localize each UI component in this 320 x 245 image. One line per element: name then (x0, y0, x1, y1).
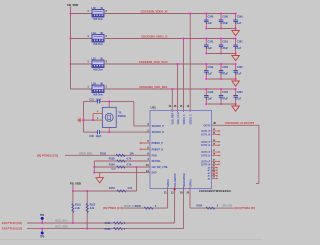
capacitor C360 (233, 13, 243, 30)
net label CDCE62N_VDD_VCO (139, 60, 169, 64)
pin A3 (207, 174, 217, 178)
svg-text:[CO] PTB0A [R]: [CO] PTB0A [R] (235, 206, 255, 210)
resistor R193 (100, 151, 134, 156)
svg-text:0.47uF: 0.47uF (220, 47, 228, 50)
svg-text:OUT3_N: OUT3_N (201, 155, 210, 158)
svg-text:ZA8 PTA16 [CO]: ZA8 PTA16 [CO] (2, 227, 22, 231)
net label I2C1_SCL (55, 219, 68, 223)
svg-text:600 Ohm: 600 Ohm (93, 44, 102, 46)
svg-text:CDCE62N_VDD_VCO: CDCE62N_VDD_VCO (139, 60, 169, 64)
svg-text:C350: C350 (222, 16, 228, 19)
wire row 4 right (104, 88, 236, 90)
pin SDA/GPIO2 (180, 173, 186, 195)
svg-text:SPI_CS0: SPI_CS0 (223, 204, 233, 207)
wire drop to IC pin row 2 (183, 38, 185, 113)
wire cap group bottom row 4 (208, 103, 236, 105)
wire CDCE62N_CLKOUT0 (212, 125, 259, 183)
svg-text:FB_VDD: FB_VDD (67, 3, 78, 7)
wire PDN net (65, 154, 150, 156)
wire drop to IC pin row 1 (189, 13, 191, 113)
pin A0 (207, 166, 217, 170)
svg-text:U11: U11 (151, 105, 157, 109)
resistor R161 pullup (72, 191, 82, 223)
pin A2 (207, 171, 217, 175)
svg-text:R195: R195 (109, 156, 116, 160)
svg-text:4.7k: 4.7k (126, 162, 131, 166)
capacitor C362 (233, 63, 243, 80)
svg-text:R194: R194 (109, 162, 116, 166)
pin PRIREF_P (140, 140, 164, 145)
svg-text:I2C1_SCL: I2C1_SCL (55, 219, 68, 223)
net label CDCE62N_VDD_REF (139, 85, 168, 89)
svg-text:VDDO_1: VDDO_1 (182, 114, 186, 125)
svg-text:GPIO1: GPIO1 (188, 179, 192, 187)
svg-text:0.1uF: 0.1uF (206, 72, 213, 75)
svg-text:OUT4_N: OUT4_N (201, 163, 210, 166)
ground row 1 caps (232, 29, 240, 36)
svg-text:C361: C361 (237, 41, 243, 44)
svg-text:4.7k: 4.7k (127, 186, 132, 190)
svg-text:TP2: TP2 (40, 236, 45, 239)
pin number 2 (106, 35, 108, 38)
capacitor C353 (219, 88, 229, 105)
svg-text:600 Ohm: 600 Ohm (93, 19, 102, 21)
wire cap group bottom row 3 (208, 78, 236, 80)
pin VDDO_3 (186, 105, 192, 125)
pin number 2 (106, 10, 108, 13)
svg-text:FB_VDD: FB_VDD (70, 181, 81, 185)
node FB_VDD bottom (70, 181, 81, 185)
svg-text:600 Ohm: 600 Ohm (93, 69, 102, 71)
ground arrow crystal (77, 118, 84, 123)
test point TP2 (40, 229, 45, 239)
pin number 1 (87, 10, 89, 13)
crystal Y2 (92, 100, 127, 133)
svg-text:PRIREF_N: PRIREF_N (152, 148, 164, 151)
net label CDCE62N_CLKOUT0 (225, 121, 254, 125)
pin number 1 (87, 35, 89, 38)
svg-text:CDCE62N_VDD1_G: CDCE62N_VDD1_G (141, 34, 168, 38)
capacitor C351 (219, 38, 229, 55)
wire row 2 left (71, 38, 93, 40)
pin VDD_REF (169, 105, 175, 125)
pin A1 (207, 168, 217, 172)
capacitor C363 (233, 88, 243, 105)
pin number 2 (106, 86, 108, 89)
svg-text:C341: C341 (208, 41, 214, 44)
net label GPIO0_PDN (79, 152, 93, 155)
svg-text:L33: L33 (92, 82, 97, 85)
node FB_VDD (67, 3, 78, 7)
svg-text:REFSEL: REFSEL (152, 160, 162, 163)
svg-text:CDCE62N_VDD_REF: CDCE62N_VDD_REF (139, 85, 168, 89)
ground row 3 caps (232, 79, 240, 86)
bottom window edge (0, 239, 263, 240)
svg-text:SCL/GPIO3: SCL/GPIO3 (173, 173, 177, 187)
net label ZA8 PTA16 CO (2, 227, 22, 231)
capacitor C350 (219, 13, 229, 30)
svg-text:R152: R152 (109, 186, 116, 190)
pin OUT4_N (201, 162, 220, 166)
pin OUT0 (203, 122, 216, 127)
test point TP1 (40, 214, 45, 223)
capacitor C342 (204, 63, 214, 80)
svg-text:C353: C353 (222, 91, 228, 94)
net label CDCE62N_VDD0_W (141, 9, 168, 13)
svg-text:I2C1_SDA: I2C1_SDA (55, 224, 68, 228)
pin OUT1_N (201, 132, 220, 137)
svg-text:R204: R204 (197, 204, 203, 207)
pin number 1 (87, 86, 89, 89)
pin DAP (146, 170, 157, 175)
capacitor C343 (204, 88, 214, 105)
svg-text:12pF: 12pF (96, 98, 102, 101)
svg-text:C340: C340 (208, 16, 214, 19)
pin OUT3_P (201, 150, 220, 154)
svg-text:DAP: DAP (152, 172, 157, 175)
pin PRIREF_N (140, 146, 164, 151)
svg-text:SECREF_P: SECREF_P (152, 125, 165, 128)
svg-text:C343: C343 (208, 91, 214, 94)
svg-text:0.1uF: 0.1uF (235, 72, 242, 75)
capacitor C361 (233, 38, 243, 55)
svg-text:[R] PTB03 [CO]: [R] PTB03 [CO] (37, 154, 58, 158)
svg-text:VDD_REF: VDD_REF (171, 112, 175, 124)
capacitor C31 (89, 98, 101, 103)
wire row 3 right (104, 63, 236, 65)
svg-text:CDCE62N5TWRGERGU: CDCE62N5TWRGERGU (199, 189, 231, 193)
svg-text:HW_SW_CTRL: HW_SW_CTRL (152, 166, 169, 169)
svg-text:12pF: 12pF (96, 135, 102, 138)
svg-text:[R] PTB01 [CO]: [R] PTB01 [CO] (103, 206, 123, 210)
ferrite bead L31 (92, 32, 105, 46)
svg-text:ZA8 PTA15 [CO]: ZA8 PTA15 [CO] (2, 221, 22, 225)
svg-text:0.1uF: 0.1uF (235, 22, 242, 25)
wire row 1 right (104, 13, 236, 15)
wire FB_VDD bottom (72, 167, 137, 192)
resistor R194 DNP (109, 162, 132, 171)
svg-text:C30: C30 (89, 135, 94, 138)
svg-text:GPIO0_PDN: GPIO0_PDN (79, 152, 93, 155)
svg-text:GPIO4: GPIO4 (166, 179, 170, 187)
svg-text:0.47uF: 0.47uF (220, 72, 228, 75)
svg-text:TP1: TP1 (40, 214, 45, 217)
resistor R165 (105, 222, 126, 225)
wire crystal top net (84, 101, 151, 126)
svg-text:10k: 10k (130, 151, 135, 155)
ground row 2 caps (232, 54, 240, 61)
pin SECREF_P (147, 123, 164, 128)
pin HW_SW_CTRL (146, 164, 169, 169)
svg-text:SDA/GPIO2: SDA/GPIO2 (182, 173, 186, 187)
wire (70, 7, 72, 89)
wire drop to IC pin row 4 (171, 88, 173, 112)
svg-text:VDDO_3: VDDO_3 (189, 114, 193, 125)
pin number 1 (87, 61, 89, 64)
resistor R195 (109, 156, 132, 162)
pin REFSEL (147, 158, 161, 163)
wire HW_SW_CTRL net (93, 166, 150, 168)
svg-text:PDN: PDN (152, 154, 157, 157)
svg-text:0.47uF: 0.47uF (220, 97, 228, 100)
wire GPIO4 net (124, 187, 168, 208)
svg-text:25MHz: 25MHz (118, 114, 127, 118)
capacitor C341 (204, 38, 214, 55)
ground row 4 caps (232, 104, 240, 111)
svg-text:OUT1_N: OUT1_N (201, 134, 210, 137)
svg-text:0.1uF: 0.1uF (235, 47, 242, 50)
svg-text:0.1uF: 0.1uF (235, 97, 242, 100)
wire GPIO1 net (190, 187, 235, 208)
junction on FB_VDD rail row 1 (70, 13, 72, 15)
resistor R162 pullup (86, 191, 96, 229)
ferrite bead L33 (92, 82, 105, 96)
net label SPI_CS0 (223, 204, 233, 207)
wire row 3 left (71, 63, 93, 65)
wire cap group bottom row 2 (208, 53, 236, 55)
ferrite bead L30 (92, 7, 105, 21)
svg-text:C360: C360 (237, 16, 243, 19)
wire DAP net (93, 172, 150, 174)
svg-text:OUT2_N: OUT2_N (201, 144, 210, 147)
net label R PTB01 CO (103, 206, 123, 210)
svg-text:4.7k: 4.7k (126, 156, 131, 160)
svg-text:SECREF_N: SECREF_N (152, 131, 165, 134)
svg-text:0.47uF: 0.47uF (220, 22, 228, 25)
svg-text:L32: L32 (92, 57, 97, 60)
pin GPIO1 (186, 179, 192, 195)
wire row 2 right (104, 38, 236, 40)
net label ZA8 PTA15 CO (2, 221, 22, 225)
capacitor C340 (204, 13, 214, 30)
svg-text:C352: C352 (222, 66, 228, 69)
svg-text:2.2k: 2.2k (90, 207, 95, 210)
svg-text:R165: R165 (105, 222, 111, 225)
svg-text:DNP: DNP (111, 168, 116, 171)
svg-text:OUT0: OUT0 (203, 123, 210, 127)
junction on FB_VDD rail row 3 (70, 63, 72, 65)
pin OUT3_N (201, 154, 220, 158)
svg-text:R203: R203 (135, 205, 141, 208)
capacitor C30 (89, 130, 101, 138)
svg-text:600 Ohm: 600 Ohm (93, 94, 102, 96)
wire cap group bottom row 1 (208, 28, 236, 30)
capacitor C352 (219, 63, 229, 80)
svg-text:CDCE62N_VDD0_W: CDCE62N_VDD0_W (141, 9, 168, 13)
pin SCL/GPIO3 (171, 173, 177, 195)
net label CO PTB0A R (235, 206, 255, 210)
net label CDCE62N_VDD1_G (141, 34, 168, 38)
wire crystal bottom net (84, 131, 151, 133)
svg-text:0.1uF: 0.1uF (206, 47, 213, 50)
pin VDDO_1 (180, 105, 186, 125)
wire I2C1_SDA (27, 187, 184, 230)
wire gnd rail left (93, 161, 95, 173)
svg-text:R166: R166 (105, 228, 111, 231)
pin OUT4_P (201, 160, 220, 164)
wire I2C1_SCL (27, 187, 176, 224)
resistor R204 (197, 204, 219, 209)
wire REFSEL net (94, 160, 150, 162)
pin A4 (207, 177, 217, 181)
ferrite bead L32 (92, 57, 105, 71)
pin GPIO4 (164, 179, 170, 195)
pin OUT1_P (201, 129, 220, 133)
svg-text:C351: C351 (222, 41, 228, 44)
net label GPIO0_CTL (124, 205, 137, 208)
resistor R203 (135, 205, 157, 209)
svg-text:R193: R193 (100, 151, 107, 155)
pin OUT2_N (201, 143, 220, 147)
op-amp U11 CDCE62005 body (150, 105, 231, 193)
pin SECREF_N (147, 129, 164, 134)
svg-text:C342: C342 (208, 66, 214, 69)
svg-text:C362: C362 (237, 66, 243, 69)
svg-text:2.2k: 2.2k (75, 207, 80, 210)
resistor R166 (105, 227, 126, 230)
net label I2C1_SDA (55, 224, 68, 228)
wire row 1 left (71, 13, 93, 15)
pin VDD_VCO (174, 105, 180, 125)
junction on FB_VDD rail row 2 (70, 38, 72, 40)
svg-text:L30: L30 (92, 7, 97, 10)
svg-text:CDCE62N_CLKOUT0: CDCE62N_CLKOUT0 (225, 121, 254, 125)
svg-text:L31: L31 (92, 32, 97, 35)
pin number 2 (106, 61, 108, 64)
pin PDN (147, 153, 157, 158)
svg-text:VDD_VCO: VDD_VCO (176, 112, 180, 124)
pin OUT2_P (201, 140, 220, 144)
wire row 4 left (71, 88, 93, 90)
svg-text:C31: C31 (89, 98, 94, 101)
svg-text:PRIREF_P: PRIREF_P (152, 142, 164, 145)
ground DAP (96, 173, 104, 183)
svg-text:0.1uF: 0.1uF (206, 97, 213, 100)
wire drop to IC pin row 3 (177, 63, 179, 112)
svg-text:0.1uF: 0.1uF (206, 22, 213, 25)
resistor R152 (109, 186, 133, 192)
wire crystal gnd rail (83, 101, 94, 132)
net label R PTB03 CO (37, 154, 58, 158)
svg-text:C363: C363 (237, 91, 243, 94)
